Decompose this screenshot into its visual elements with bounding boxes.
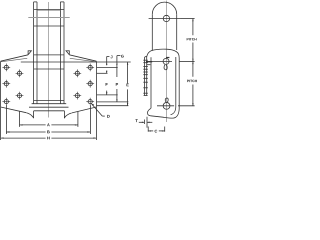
label PITCH <box>187 80 197 82</box>
label B <box>47 131 50 134</box>
link2 bottom edge <box>151 108 180 118</box>
dim H line <box>1 137 97 138</box>
pin 3 <box>163 102 170 109</box>
dim F line <box>106 62 107 95</box>
dim P line <box>116 62 117 102</box>
pitch extension bottom <box>178 105 195 107</box>
plate strip left <box>144 57 146 95</box>
label A <box>47 123 50 126</box>
strip hatch 1 <box>143 59 148 61</box>
right wing edge <box>95 61 97 107</box>
link2 left edge <box>150 57 152 108</box>
label T <box>135 119 137 122</box>
right wing bottom slope <box>72 107 97 113</box>
row4 extension line <box>97 94 118 96</box>
pin 2 cotter loop <box>164 65 167 70</box>
pin 2 <box>163 58 169 64</box>
right wing top slope <box>69 55 96 61</box>
link2 top edge <box>147 49 180 62</box>
hole R1 <box>86 64 94 72</box>
dim C <box>148 127 165 132</box>
plate strip bottom <box>144 95 148 97</box>
strip hatch 10 <box>143 92 148 94</box>
bolt line thick at pin2 level <box>146 61 152 63</box>
sidebar right edge <box>176 14 178 50</box>
pin axis gray line <box>28 17 69 19</box>
pin 3 cotter loop <box>165 98 168 102</box>
D leader <box>91 104 104 117</box>
dim E line <box>127 62 128 106</box>
row2 extension line <box>97 72 108 74</box>
hole L3 <box>2 80 10 88</box>
link2 inner right line <box>175 57 177 107</box>
dim PITCH 2 <box>192 61 193 105</box>
dim PITCH 1 <box>192 19 193 62</box>
hole R5 <box>86 98 94 106</box>
label E <box>127 84 129 87</box>
left wing edge <box>0 61 2 107</box>
bolt hidden dash <box>147 64 151 66</box>
strip hatch 6 <box>143 74 148 76</box>
pin 1 <box>163 15 169 21</box>
dim A extension left <box>19 111 21 127</box>
right bar outer line <box>63 2 65 104</box>
right gusset step <box>66 51 69 55</box>
strip hatch 5 <box>143 71 148 73</box>
hole L1 <box>2 64 10 72</box>
dim A extension right <box>77 112 79 127</box>
pin 2 head dash <box>166 57 169 59</box>
label PITCH <box>187 38 197 40</box>
label F <box>106 83 108 86</box>
label J <box>111 56 113 59</box>
strip hatch 8 <box>143 81 148 83</box>
cross line second <box>34 25 64 27</box>
plate bottom line <box>34 68 64 70</box>
link2 inner corner arc <box>171 107 176 115</box>
dim B extension right <box>89 105 91 134</box>
label D <box>107 115 110 118</box>
link2 right edge <box>178 62 180 108</box>
left bar inner line <box>36 2 38 104</box>
bottom extension line <box>97 105 129 107</box>
strip hatch 7 <box>143 77 148 79</box>
dim B extension left <box>5 105 7 134</box>
right bar inner line <box>59 2 61 104</box>
plate strip right <box>146 57 148 96</box>
dim H extension left <box>0 107 2 140</box>
label C <box>155 130 158 133</box>
label P <box>116 83 118 86</box>
pin 1 axis <box>149 18 181 20</box>
label G <box>121 55 124 58</box>
left bar outer line <box>33 2 35 104</box>
hole R4 <box>73 92 81 100</box>
dim H extension right <box>95 107 97 140</box>
right bar top cap <box>60 1 64 3</box>
bottom line 4 <box>34 110 65 112</box>
dim J bracket <box>107 57 110 63</box>
cross line top <box>34 9 64 11</box>
strip hatch 2 <box>143 62 148 64</box>
plate strip top bend <box>145 56 147 59</box>
plate horizontal line <box>21 61 131 63</box>
side centerline <box>165 1 167 123</box>
dim A line <box>20 124 78 125</box>
left gusset step <box>28 51 31 55</box>
strip hatch 9 <box>143 87 148 89</box>
label H <box>47 137 49 140</box>
bottom line 2 <box>32 103 67 105</box>
dim T <box>139 117 153 128</box>
left foot <box>26 111 33 118</box>
dim B line <box>6 131 90 132</box>
row5 extension line <box>97 101 129 103</box>
dim G bracket <box>117 56 121 63</box>
cross line mid <box>34 54 64 56</box>
left wing top slope <box>1 55 29 61</box>
hole L5 <box>2 98 10 106</box>
pitch extension top <box>181 18 195 20</box>
left wing bottom slope <box>1 107 27 113</box>
right wing back edge <box>70 58 97 62</box>
left wing back edge <box>1 58 28 62</box>
pin 3 axis <box>157 105 174 107</box>
strip hatch 4 <box>143 68 148 70</box>
row1 extension line <box>97 66 118 68</box>
hole L4 <box>16 92 24 100</box>
pitch extension mid <box>180 60 195 62</box>
hole L2 <box>16 69 24 77</box>
hole R3 <box>86 80 94 88</box>
text labels <box>47 38 197 139</box>
link2 bottom foot flare <box>148 108 151 116</box>
bottom line 3 <box>29 106 69 108</box>
pin 2 axis <box>146 60 172 62</box>
hole R2 <box>73 69 81 77</box>
centerline vertical <box>48 2 50 118</box>
strip hatch 3 <box>143 65 148 67</box>
cross line top lower <box>37 10 60 12</box>
left bar top cap <box>34 1 37 3</box>
sidebar top arc <box>152 2 176 14</box>
sidebar left edge <box>151 14 153 51</box>
right foot <box>64 111 71 118</box>
bottom line 1 <box>34 100 64 102</box>
